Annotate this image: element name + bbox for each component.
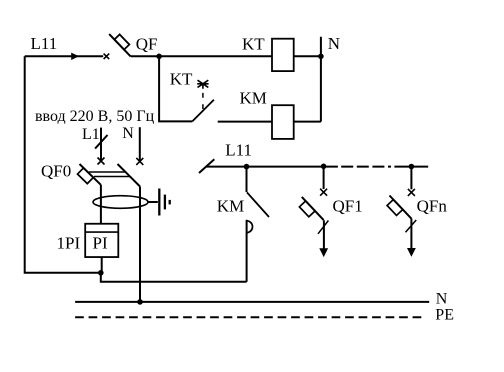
- svg-text:QF1: QF1: [333, 196, 363, 215]
- L11 bus line solid left: [206, 166, 338, 168]
- slash mark on QFn outgoing lead: [406, 220, 417, 232]
- svg-text:L11: L11: [225, 140, 252, 159]
- differential toroid of QF0: [93, 196, 148, 209]
- relay coil KT: [272, 39, 294, 71]
- wire QF0 pole L1 down to meter: [100, 185, 102, 224]
- fixed contact cross of QF1: [320, 189, 327, 196]
- svg-text:N: N: [328, 34, 340, 53]
- wire coil KT to N: [294, 55, 321, 57]
- time-relay actuator symbol of KT: [197, 80, 208, 89]
- fixed contact cross of QF0 pole L1: [98, 158, 105, 165]
- wire coil KM to N: [294, 121, 321, 123]
- svg-text:QF: QF: [136, 34, 158, 53]
- svg-text:L11: L11: [31, 34, 58, 53]
- svg-text:KT: KT: [242, 34, 265, 53]
- contactor coil KM: [272, 105, 294, 139]
- wire KM contact lower lead: [246, 220, 248, 282]
- fixed contact cross of QF: [104, 54, 110, 60]
- wire N lead: [139, 127, 141, 161]
- svg-text:PI: PI: [93, 233, 108, 252]
- N bus line (bottom): [75, 301, 429, 303]
- svg-text:N: N: [436, 291, 448, 308]
- svg-text:KM: KM: [217, 197, 244, 216]
- dashed actuator link of contact KT: [202, 93, 204, 109]
- junction KM tap on bus: [244, 164, 250, 170]
- wire QFn upper lead: [410, 167, 412, 190]
- svg-text:PE: PE: [435, 307, 454, 324]
- PE bus line (dashed): [75, 316, 425, 318]
- wire KM contact upper lead: [246, 167, 248, 192]
- wire QF0 pole N down to N bus: [139, 187, 141, 302]
- contactor contact KM blade: [247, 192, 269, 217]
- arrow flow direction on feeder: [71, 53, 79, 60]
- svg-text:KM: KM: [240, 88, 267, 107]
- slash mark on L1 lead: [95, 135, 107, 149]
- svg-text:1PI: 1PI: [57, 233, 81, 252]
- arrow outgoing feeder QF1: [319, 248, 328, 257]
- breaker QF0 pole L1 blade with release box: [73, 164, 100, 191]
- slash mark on QF1 outgoing lead: [318, 221, 328, 234]
- wire junction jog to contact KM: [101, 273, 247, 282]
- wire branch to contact KT: [159, 56, 192, 121]
- wire contact KT to coil KM: [218, 121, 272, 123]
- svg-text:QF0: QF0: [41, 161, 71, 180]
- wire L1 lead: [100, 128, 102, 161]
- svg-text:QFn: QFn: [417, 196, 448, 215]
- svg-text:ввод 220 В, 50 Гц: ввод 220 В, 50 Гц: [35, 108, 155, 125]
- fixed contact cross of QFn: [408, 189, 415, 196]
- wire toroid to trip element: [148, 201, 158, 203]
- wire top feeder: [25, 55, 104, 57]
- wire QF to coil KT: [131, 55, 273, 57]
- junction N node: [318, 54, 324, 60]
- junction QFn tap on bus: [409, 164, 415, 170]
- trip element bar medium: [164, 195, 166, 210]
- breaker QFn blade with release box: [383, 196, 411, 225]
- trip element bar long: [158, 189, 160, 216]
- wire N vertical conductor: [320, 37, 322, 122]
- junction at QF output: [156, 54, 162, 60]
- junction below meter: [98, 270, 104, 276]
- wire QF1 outgoing lead: [323, 220, 325, 250]
- svg-text:N: N: [122, 125, 134, 142]
- junction QF1 tap on bus: [321, 164, 327, 170]
- wire QF1 upper lead: [323, 166, 325, 189]
- fixed contact cross of QF0 pole N: [136, 158, 143, 165]
- mechanical linkage double line of QF0: [89, 172, 130, 177]
- trip element bar short: [169, 200, 171, 205]
- svg-text:L1: L1: [82, 126, 100, 143]
- meter 1PI box: [85, 224, 118, 257]
- breaker QF0 pole N blade: [118, 164, 140, 186]
- contact KT blade (time-delay closing): [192, 100, 214, 122]
- junction N bus tap: [137, 299, 143, 305]
- wire meter to junction: [101, 257, 103, 273]
- wire QFn outgoing lead: [410, 218, 412, 249]
- L11 bus line dashed middle: [341, 166, 394, 168]
- circuit breaker QF: [109, 29, 136, 56]
- wire left riser L11 down to meter junction: [25, 56, 101, 272]
- meter 1PI header line: [85, 231, 118, 233]
- svg-text:KT: KT: [170, 70, 193, 89]
- slash mark at bus start: [199, 159, 214, 173]
- breaker QF1 blade with release box: [296, 197, 324, 226]
- arrow outgoing feeder QFn: [407, 248, 416, 257]
- contactor contact KM arc: [247, 221, 253, 233]
- L11 bus line solid right: [394, 166, 428, 168]
